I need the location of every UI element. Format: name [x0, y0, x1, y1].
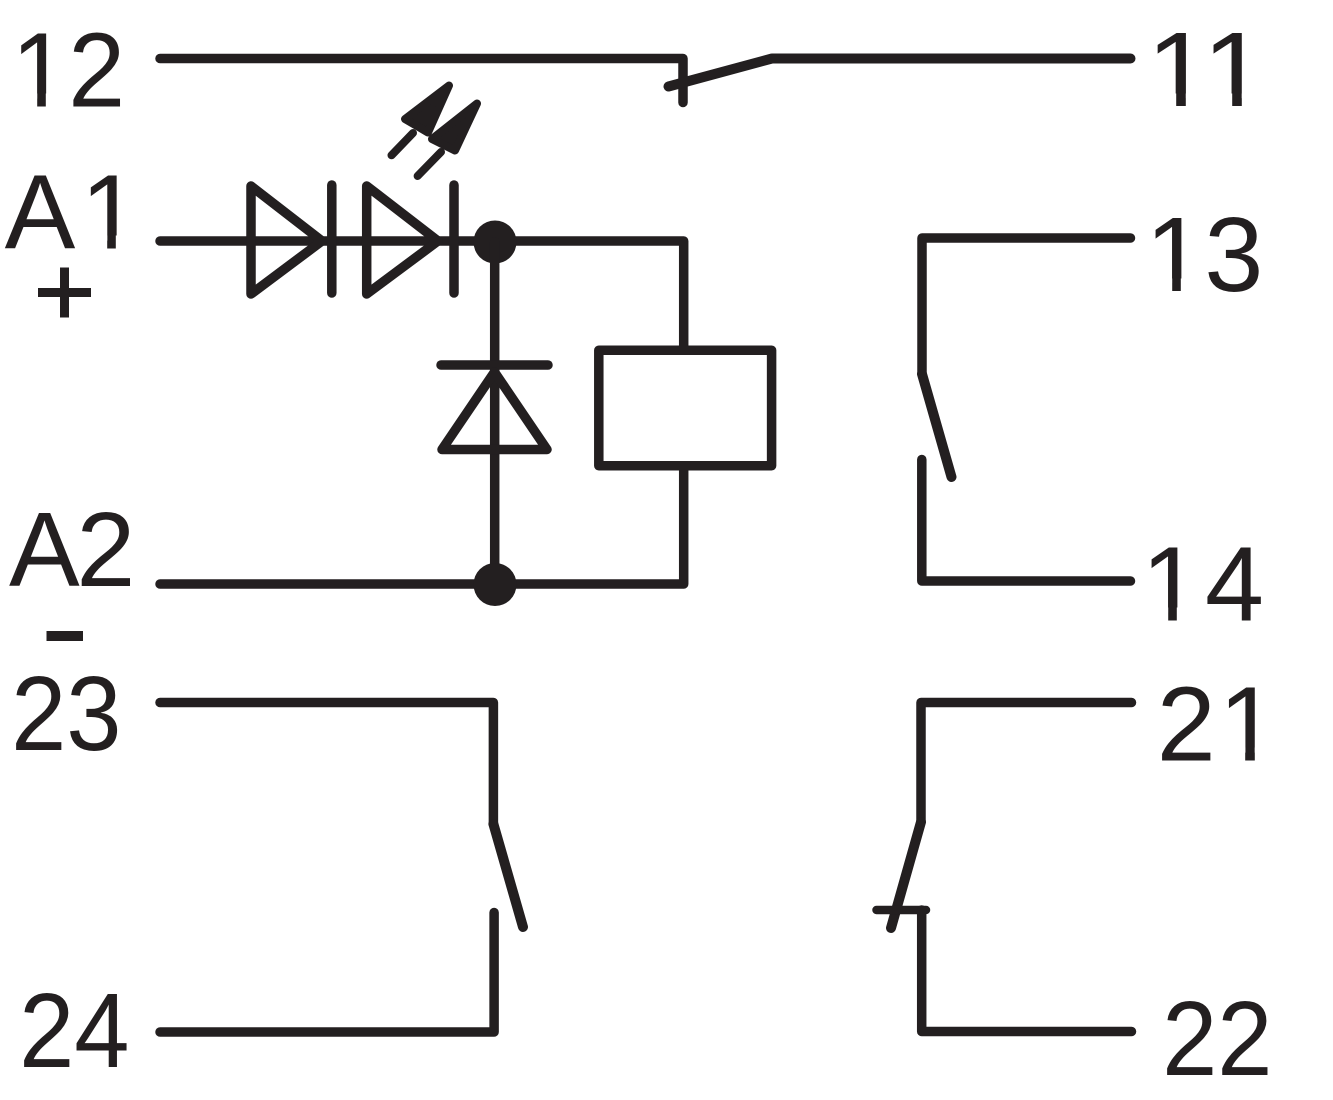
- svg-text:13: 13: [1145, 196, 1263, 314]
- LED D2 cathode bar: [449, 185, 459, 293]
- white patches removing "1" foot serifs (target font has none): [18, 94, 38, 109]
- LED D2 triangle: [367, 186, 438, 294]
- svg-text:A2: A2: [9, 491, 132, 609]
- svg-text:12: 12: [11, 12, 125, 130]
- diode D3 triangle: [442, 372, 547, 450]
- LED arrow 1: [392, 86, 450, 156]
- junction node A1 branch: [474, 221, 517, 264]
- wire 13: [922, 238, 1131, 374]
- wire 23: [160, 703, 493, 825]
- svg-text:22: 22: [1162, 980, 1272, 1098]
- contact blade 23-24 (open): [493, 824, 523, 927]
- minus sign: [47, 631, 84, 641]
- wire 22 with stub: [922, 910, 1132, 1032]
- wire 14 with stub: [922, 460, 1131, 582]
- wire A1 to coil top: [160, 241, 684, 350]
- contact blade 11-12 (closed) with wire 11: [669, 59, 1131, 87]
- plus sign: [38, 268, 91, 318]
- contact blade 13-14 (open): [922, 374, 952, 477]
- svg-text:23: 23: [11, 655, 121, 773]
- svg-text:24: 24: [19, 972, 129, 1090]
- relay coil K1: [599, 350, 772, 466]
- diode D1 triangle: [251, 186, 322, 294]
- wire 21: [921, 703, 1132, 823]
- diode D1 cathode bar: [327, 185, 337, 293]
- wire 24 with stub: [160, 913, 494, 1033]
- svg-text:21: 21: [1157, 666, 1281, 784]
- svg-text:11: 11: [1147, 11, 1267, 129]
- svg-text:A1: A1: [5, 154, 145, 272]
- wire A2 to coil bottom: [160, 466, 684, 584]
- contact blade 21-22 (closed): [891, 822, 921, 928]
- diode D3 cathode bar: [441, 360, 548, 370]
- LED arrow 2: [418, 104, 477, 177]
- svg-text:14: 14: [1141, 526, 1268, 644]
- wire 12 with fixed contact bar: [160, 59, 683, 103]
- wire junction to junction (vertical through diode D3): [490, 242, 500, 584]
- fixed contact bar 22: [877, 906, 927, 915]
- junction node A2 branch: [474, 563, 517, 606]
